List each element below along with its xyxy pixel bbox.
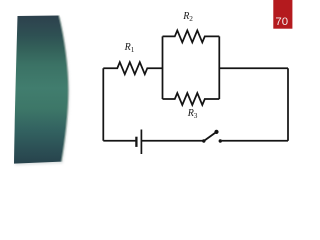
wire switch to right bbox=[222, 140, 288, 142]
wire left vertical bbox=[102, 68, 104, 141]
wire right vertical bbox=[287, 68, 289, 141]
wire output to right bbox=[219, 67, 288, 69]
slide number box bbox=[273, 0, 292, 29]
wire bottom left to battery bbox=[103, 140, 136, 142]
battery B1 bbox=[136, 130, 141, 155]
resistor R1 bbox=[103, 62, 162, 74]
wire parallel-box left vertical bbox=[162, 36, 164, 99]
resistor R3 bbox=[163, 93, 220, 105]
wire parallel-box right vertical bbox=[218, 36, 220, 99]
decorative teal panel right-edge highlight bbox=[59, 16, 69, 162]
decorative teal panel shadow bbox=[15, 17, 69, 165]
decorative teal panel bbox=[14, 16, 68, 164]
resistor R2 bbox=[163, 30, 220, 42]
switch S1 bbox=[202, 130, 222, 143]
wire battery to switch bbox=[141, 140, 202, 142]
svg-text:70: 70 bbox=[275, 16, 288, 28]
